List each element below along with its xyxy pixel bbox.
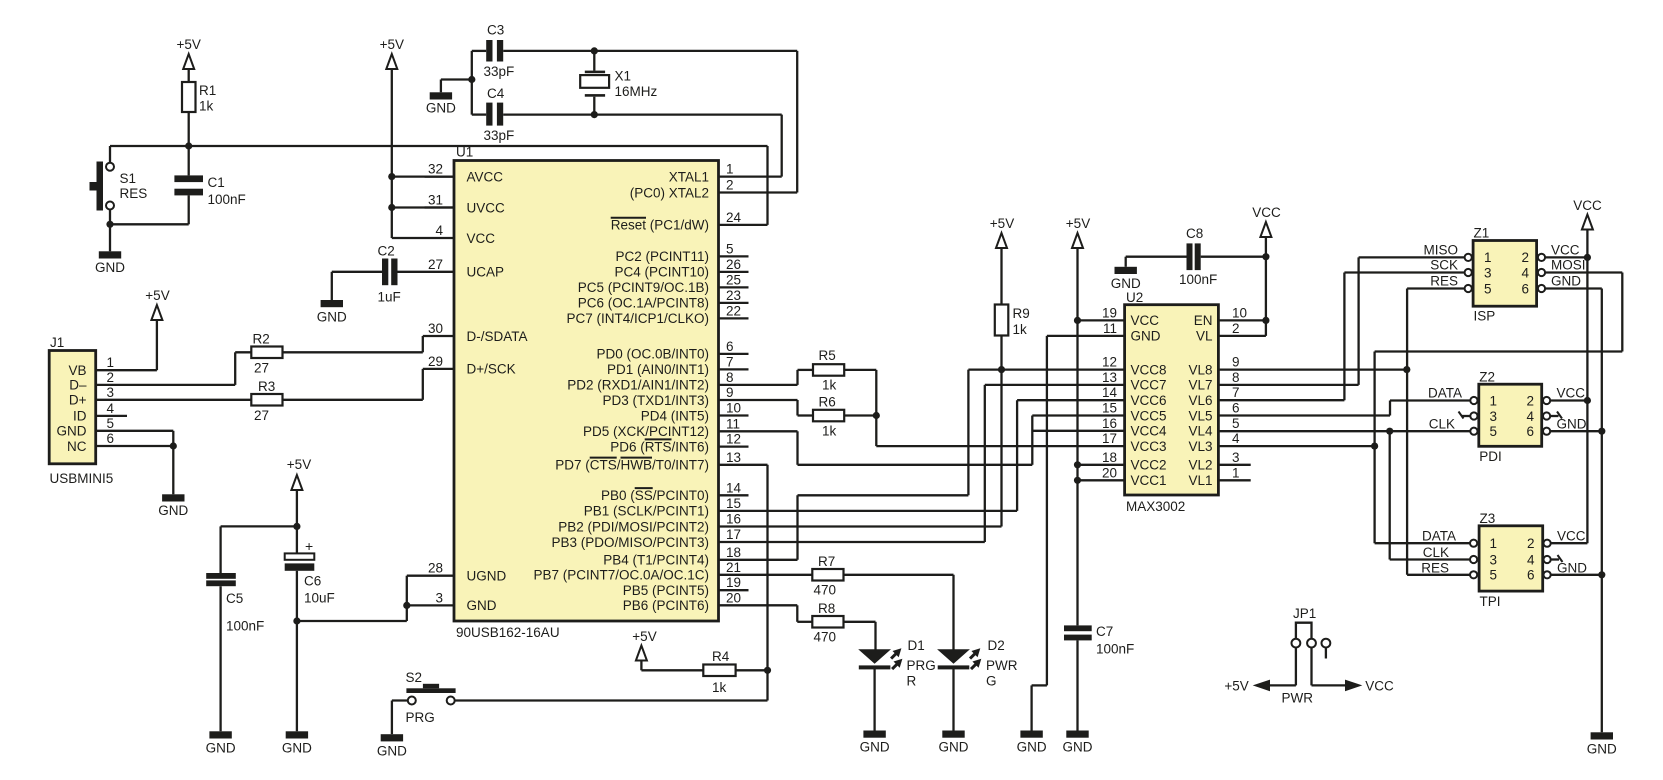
svg-text:VCC3: VCC3 bbox=[1131, 439, 1167, 454]
svg-text:GND: GND bbox=[426, 101, 456, 116]
svg-text:10uF: 10uF bbox=[304, 591, 335, 606]
wire PB7 to R7 bbox=[719, 574, 813, 576]
svg-text:1: 1 bbox=[726, 162, 734, 177]
svg-text:21: 21 bbox=[726, 560, 741, 575]
wire VL4 to Z2 CLK bbox=[1218, 430, 1470, 432]
svg-text:100nF: 100nF bbox=[226, 619, 264, 634]
svg-text:1k: 1k bbox=[199, 99, 214, 114]
node VCC/Z2 bbox=[1584, 397, 1591, 404]
svg-text:VCC: VCC bbox=[1131, 313, 1160, 328]
svg-text:MOSI: MOSI bbox=[1551, 258, 1586, 273]
node +5V/U2 pin19 bbox=[1074, 317, 1081, 324]
svg-text:VCC: VCC bbox=[467, 231, 496, 246]
svg-text:16MHz: 16MHz bbox=[615, 84, 658, 99]
svg-text:VCC1: VCC1 bbox=[1131, 473, 1167, 488]
svg-text:TPI: TPI bbox=[1480, 594, 1501, 609]
svg-text:9: 9 bbox=[1232, 355, 1240, 370]
svg-text:4: 4 bbox=[1232, 431, 1240, 446]
svg-text:AVCC: AVCC bbox=[467, 169, 504, 184]
svg-text:VCC6: VCC6 bbox=[1131, 393, 1167, 408]
svg-text:VCC: VCC bbox=[1573, 198, 1602, 213]
svg-text:RES: RES bbox=[1430, 274, 1458, 289]
wire R5/R6 node to U2 pin 17 bbox=[876, 416, 1124, 447]
power +5V (R9) bbox=[990, 216, 1014, 305]
svg-text:C5: C5 bbox=[226, 591, 243, 606]
svg-text:RES: RES bbox=[120, 186, 148, 201]
svg-text:PB3 (PDO/MISO/PCINT3): PB3 (PDO/MISO/PCINT3) bbox=[551, 535, 709, 550]
U1 inverted-signal overbars bbox=[590, 218, 672, 488]
svg-text:PB1 (SCLK/PCINT1): PB1 (SCLK/PCINT1) bbox=[584, 504, 709, 519]
svg-text:R3: R3 bbox=[258, 379, 275, 394]
svg-text:VL2: VL2 bbox=[1188, 458, 1212, 473]
crystal X1 16MHz bbox=[580, 51, 657, 115]
svg-text:100nF: 100nF bbox=[1179, 272, 1217, 287]
node X1 bottom junction bbox=[591, 111, 598, 118]
svg-text:UCAP: UCAP bbox=[467, 265, 505, 280]
svg-text:GND: GND bbox=[939, 740, 969, 755]
wire U2 pin11 GND net bbox=[1032, 336, 1125, 731]
svg-text:Z3: Z3 bbox=[1480, 511, 1496, 526]
svg-text:1: 1 bbox=[1484, 250, 1492, 265]
U1 left pin numbers and labels bbox=[428, 162, 528, 614]
node J1 gnd junction bbox=[170, 442, 177, 449]
wire S1-C1 bottom to GND bbox=[110, 224, 189, 251]
svg-text:14: 14 bbox=[1102, 385, 1118, 400]
ground (S1/C1) bbox=[95, 251, 125, 275]
op-amp U2 MAX3002 body bbox=[1125, 290, 1219, 514]
svg-text:PD0 (OC.0B/INT0): PD0 (OC.0B/INT0) bbox=[596, 347, 709, 362]
power +5V (R4) bbox=[632, 629, 703, 670]
svg-text:5: 5 bbox=[1232, 416, 1240, 431]
wire R7 to D2 bbox=[844, 575, 954, 650]
svg-text:17: 17 bbox=[1102, 431, 1117, 446]
svg-text:2: 2 bbox=[1527, 536, 1535, 551]
ground (C6) bbox=[282, 731, 312, 755]
svg-text:MISO: MISO bbox=[1423, 243, 1458, 258]
svg-text:C3: C3 bbox=[487, 23, 504, 38]
node U1 gnd junction bbox=[403, 602, 410, 609]
ground (Z connectors) bbox=[1587, 732, 1617, 756]
svg-text:11: 11 bbox=[1103, 321, 1117, 336]
wire JP1 to VCC arrow bbox=[1312, 679, 1394, 694]
capacitor C5 100nF bbox=[206, 573, 264, 731]
wire U1 right bare pin stubs bbox=[719, 256, 749, 590]
wire Z2 GND bbox=[1550, 430, 1602, 432]
connector Z2 PDI body bbox=[1479, 370, 1542, 465]
switch S2 PRG bbox=[406, 670, 456, 725]
svg-text:24: 24 bbox=[726, 210, 742, 225]
wire C6 gnd net to U1 GND bbox=[297, 605, 407, 621]
svg-text:GND: GND bbox=[1551, 274, 1581, 289]
svg-text:9: 9 bbox=[726, 385, 734, 400]
svg-text:USBMINI5: USBMINI5 bbox=[50, 471, 114, 486]
resistor R7 470 bbox=[812, 554, 843, 598]
svg-text:PC4 (PCINT10): PC4 (PCINT10) bbox=[614, 265, 709, 280]
svg-text:R1: R1 bbox=[199, 83, 216, 98]
svg-text:PRG: PRG bbox=[406, 710, 435, 725]
resistor R5 1k bbox=[813, 348, 844, 393]
svg-text:PWR: PWR bbox=[986, 658, 1018, 673]
svg-text:PB7 (PCINT7/OC.0A/OC.1C): PB7 (PCINT7/OC.0A/OC.1C) bbox=[533, 568, 709, 583]
svg-text:27: 27 bbox=[254, 408, 269, 423]
svg-text:R7: R7 bbox=[818, 554, 835, 569]
wire J1 pin3 D+ to R3 bbox=[96, 399, 252, 401]
ground (C7) bbox=[1063, 731, 1093, 755]
svg-text:19: 19 bbox=[1102, 305, 1117, 320]
svg-text:PC7 (INT4/ICP1/CLKO): PC7 (INT4/ICP1/CLKO) bbox=[566, 311, 709, 326]
svg-text:5: 5 bbox=[1490, 424, 1498, 439]
svg-text:C6: C6 bbox=[304, 574, 321, 589]
node VL4/TPI CLK junction bbox=[1386, 428, 1393, 435]
ground (U2 GND) bbox=[1017, 731, 1047, 755]
svg-text:13: 13 bbox=[726, 450, 741, 465]
svg-text:GND: GND bbox=[206, 741, 236, 756]
svg-text:1k: 1k bbox=[1013, 322, 1028, 337]
svg-text:19: 19 bbox=[726, 575, 741, 590]
svg-text:6: 6 bbox=[1522, 281, 1530, 296]
svg-text:GND: GND bbox=[377, 744, 407, 759]
diode D2 PWR LED bbox=[937, 638, 1018, 731]
svg-text:3: 3 bbox=[1490, 409, 1498, 424]
node S1 bottom junction bbox=[106, 221, 113, 228]
svg-text:4: 4 bbox=[435, 223, 443, 238]
wire Z3 pin4 nc stub bbox=[1551, 555, 1563, 562]
svg-text:R8: R8 bbox=[818, 601, 835, 616]
capacitor C1 100nF bbox=[174, 146, 245, 224]
svg-text:VL3: VL3 bbox=[1188, 439, 1212, 454]
resistor R6 1k bbox=[813, 395, 844, 439]
svg-text:VB: VB bbox=[68, 363, 86, 378]
wire R6 to node bbox=[844, 414, 876, 416]
wire VL7 to Z1 MISO bbox=[1218, 257, 1464, 385]
wire gnd tap arm bbox=[441, 80, 472, 93]
svg-text:MAX3002: MAX3002 bbox=[1126, 499, 1185, 514]
svg-text:PD4 (INT5): PD4 (INT5) bbox=[641, 408, 709, 423]
svg-text:(PC0) XTAL2: (PC0) XTAL2 bbox=[630, 185, 709, 200]
wire VL5 to Z2 DATA bbox=[1218, 401, 1470, 416]
op-amp U1 90USB162-16AU body bbox=[454, 145, 719, 641]
U2 pin numbers and labels bbox=[1102, 305, 1247, 488]
svg-text:+5V: +5V bbox=[287, 457, 311, 472]
wire PB4 to U2 pin 12 net bbox=[719, 370, 1125, 560]
svg-text:8: 8 bbox=[1232, 370, 1240, 385]
svg-text:2: 2 bbox=[1232, 321, 1240, 336]
svg-text:PD7 (CTS/HWB/T0/INT7): PD7 (CTS/HWB/T0/INT7) bbox=[555, 458, 709, 473]
svg-text:470: 470 bbox=[814, 630, 837, 645]
svg-text:J1: J1 bbox=[50, 335, 64, 350]
svg-text:UGND: UGND bbox=[467, 569, 507, 584]
wire Z3 GND bbox=[1551, 574, 1602, 576]
Z1 signal labels bbox=[1423, 243, 1585, 289]
wire PB1 to U2 pin 14 bbox=[719, 400, 1125, 511]
connector Z1 pins bbox=[1465, 250, 1546, 296]
power +5V (C5/C6 rail) bbox=[287, 457, 311, 526]
svg-text:U1: U1 bbox=[456, 145, 473, 160]
svg-text:PD5 (XCK/PCINT12): PD5 (XCK/PCINT12) bbox=[583, 424, 709, 439]
svg-text:+5V: +5V bbox=[176, 37, 200, 52]
svg-text:R9: R9 bbox=[1013, 306, 1030, 321]
svg-text:GND: GND bbox=[95, 260, 125, 275]
wire VL2 stub bbox=[1218, 464, 1250, 466]
svg-text:15: 15 bbox=[726, 496, 741, 511]
wire R8 to D1 bbox=[844, 622, 876, 650]
svg-text:VCC: VCC bbox=[1557, 386, 1586, 401]
wire U1 pin3 GND bbox=[407, 604, 454, 606]
svg-text:GND: GND bbox=[860, 740, 890, 755]
svg-text:1uF: 1uF bbox=[378, 290, 401, 305]
wire U1 pin28 UGND bbox=[407, 576, 454, 606]
svg-text:3: 3 bbox=[1490, 552, 1498, 567]
wire XTAL1 net (C4 row to pin 1) bbox=[594, 115, 781, 177]
svg-text:XTAL1: XTAL1 bbox=[669, 169, 709, 184]
svg-text:12: 12 bbox=[726, 432, 741, 447]
connector J1 USBMINI5 body bbox=[49, 335, 113, 486]
node RESET junction at R1 bbox=[185, 142, 192, 149]
svg-text:RES: RES bbox=[1421, 560, 1449, 575]
wire VL8 to RES column bbox=[1218, 368, 1406, 370]
svg-text:DATA: DATA bbox=[1422, 529, 1456, 544]
svg-text:90USB162-16AU: 90USB162-16AU bbox=[456, 625, 560, 640]
svg-text:PRG: PRG bbox=[907, 658, 936, 673]
power VCC (Z connectors) bbox=[1573, 198, 1602, 543]
capacitor C3 33pF bbox=[472, 23, 595, 80]
svg-text:ID: ID bbox=[73, 409, 87, 424]
svg-text:7: 7 bbox=[1232, 385, 1240, 400]
wire Z2 pin4 nc stub bbox=[1550, 412, 1562, 419]
svg-text:U2: U2 bbox=[1126, 290, 1143, 305]
svg-text:GND: GND bbox=[1017, 740, 1047, 755]
svg-text:+5V: +5V bbox=[632, 629, 656, 644]
wire RES column (Z1 RES to Z3 RES) bbox=[1407, 289, 1470, 575]
wire J1 pin2 D- to R2 bbox=[96, 352, 252, 385]
power +5V (R1 pull-up supply) bbox=[176, 37, 200, 82]
wire U1 pin 32 stub bbox=[425, 175, 454, 177]
ground (D2) bbox=[939, 731, 969, 755]
capacitor C8 100nF bbox=[1126, 226, 1266, 287]
svg-text:R4: R4 bbox=[712, 649, 730, 664]
svg-text:PD2 (RXD1/AIN1/INT2): PD2 (RXD1/AIN1/INT2) bbox=[567, 378, 709, 393]
wire VL6 to Z1 SCK bbox=[1218, 273, 1464, 401]
svg-text:25: 25 bbox=[726, 272, 741, 287]
diode D1 PRG LED bbox=[858, 638, 936, 731]
power +5V (U2 rail) bbox=[1066, 216, 1125, 625]
power VCC (U2 EN/VL) bbox=[1218, 205, 1281, 336]
svg-text:VCC2: VCC2 bbox=[1131, 458, 1167, 473]
wire PD5 to U2 pin 16 bbox=[719, 416, 1125, 465]
svg-text:GND: GND bbox=[1131, 329, 1161, 344]
svg-text:D+: D+ bbox=[69, 393, 87, 408]
svg-text:3: 3 bbox=[1484, 265, 1492, 280]
svg-text:5: 5 bbox=[107, 416, 115, 431]
ground (D1) bbox=[860, 731, 890, 755]
node VCC/Z1 bbox=[1584, 254, 1591, 261]
wire C3/C4 left join bbox=[471, 51, 473, 115]
wire J1 pin1 VB to +5V bbox=[96, 320, 157, 370]
svg-text:R2: R2 bbox=[253, 332, 270, 347]
svg-text:6: 6 bbox=[1527, 424, 1535, 439]
svg-text:JP1: JP1 bbox=[1293, 606, 1316, 621]
svg-text:15: 15 bbox=[1102, 401, 1117, 416]
svg-text:D2: D2 bbox=[988, 638, 1005, 653]
svg-text:VL4: VL4 bbox=[1188, 424, 1213, 439]
svg-text:G: G bbox=[986, 674, 997, 689]
wire PD2 to R5 bbox=[719, 370, 814, 385]
svg-text:33pF: 33pF bbox=[484, 64, 515, 79]
svg-text:PC6 (OC.1A/PCINT8): PC6 (OC.1A/PCINT8) bbox=[578, 296, 709, 311]
svg-text:PC2 (PCINT11): PC2 (PCINT11) bbox=[615, 249, 709, 264]
node VCC/EN junction bbox=[1262, 317, 1269, 324]
svg-text:UVCC: UVCC bbox=[467, 200, 506, 215]
svg-text:D1: D1 bbox=[908, 638, 925, 653]
svg-text:+5V: +5V bbox=[1066, 216, 1090, 231]
svg-text:VCC4: VCC4 bbox=[1131, 424, 1168, 439]
svg-text:6: 6 bbox=[107, 431, 115, 446]
resistor R9 1k bbox=[995, 305, 1030, 338]
svg-text:VCC: VCC bbox=[1557, 529, 1586, 544]
power +5V (J1 VB) bbox=[145, 288, 169, 320]
capacitor C2 1uF bbox=[332, 244, 454, 305]
wire XTAL2 net (C3 row to pin 2) bbox=[594, 51, 797, 193]
node X1 top junction bbox=[591, 47, 598, 54]
connector Z3 pins bbox=[1470, 536, 1551, 583]
svg-text:GND: GND bbox=[158, 503, 188, 518]
Z3 signal labels bbox=[1421, 529, 1587, 576]
wire TPI CLK column bbox=[1390, 431, 1470, 559]
wire J1 pin5 GND bbox=[96, 431, 174, 446]
svg-text:Z1: Z1 bbox=[1474, 226, 1490, 241]
svg-text:1k: 1k bbox=[822, 378, 837, 393]
node +5V/AVCC junction bbox=[388, 173, 395, 180]
svg-text:1k: 1k bbox=[712, 680, 727, 695]
svg-text:CLK: CLK bbox=[1429, 417, 1455, 432]
svg-text:PB4 (T1/PCINT4): PB4 (T1/PCINT4) bbox=[603, 553, 709, 568]
svg-text:4: 4 bbox=[1522, 265, 1530, 280]
wire Z2 VCC bbox=[1550, 399, 1587, 401]
svg-text:VL6: VL6 bbox=[1188, 393, 1212, 408]
node +5V/U2 pin18 bbox=[1074, 461, 1081, 468]
capacitor C6 10uF (polarized) bbox=[285, 526, 335, 621]
svg-text:20: 20 bbox=[1102, 465, 1117, 480]
svg-text:NC: NC bbox=[67, 439, 87, 454]
svg-text:2: 2 bbox=[107, 370, 115, 385]
svg-text:+: + bbox=[305, 538, 313, 554]
svg-text:1: 1 bbox=[1490, 536, 1498, 551]
wire RESET net (R1/S1/C1 to pin 24) bbox=[110, 146, 768, 225]
svg-text:S1: S1 bbox=[120, 171, 137, 186]
svg-text:VL: VL bbox=[1196, 329, 1213, 344]
svg-text:C7: C7 bbox=[1096, 624, 1113, 639]
wire Z1 GND bbox=[1545, 289, 1602, 733]
svg-text:ISP: ISP bbox=[1474, 309, 1496, 324]
node GND/Z3 bbox=[1598, 571, 1605, 578]
wire PD3 to R6 bbox=[719, 400, 814, 416]
svg-text:C1: C1 bbox=[208, 175, 225, 190]
svg-text:1k: 1k bbox=[822, 424, 837, 439]
svg-text:5: 5 bbox=[1484, 281, 1492, 296]
node +5V/UVCC junction bbox=[388, 204, 395, 211]
resistor R8 470 bbox=[812, 601, 843, 645]
wire U1 pin 31 stub bbox=[425, 206, 454, 208]
node VCC/C8 junction bbox=[1262, 253, 1269, 260]
svg-text:14: 14 bbox=[726, 480, 742, 495]
svg-text:PD6 (RTS/INT6): PD6 (RTS/INT6) bbox=[610, 439, 709, 454]
svg-text:R5: R5 bbox=[819, 348, 836, 363]
ground (C5) bbox=[206, 731, 236, 755]
svg-text:C4: C4 bbox=[487, 86, 505, 101]
svg-text:16: 16 bbox=[726, 512, 741, 527]
svg-text:PC5 (PCINT9/OC.1B): PC5 (PCINT9/OC.1B) bbox=[578, 280, 709, 295]
svg-text:GND: GND bbox=[1587, 742, 1617, 757]
svg-text:GND: GND bbox=[57, 424, 87, 439]
svg-text:C8: C8 bbox=[1186, 226, 1203, 241]
svg-text:29: 29 bbox=[428, 354, 443, 369]
svg-text:16: 16 bbox=[1102, 416, 1117, 431]
svg-text:6: 6 bbox=[1232, 401, 1240, 416]
node +5V/U2 pin20 bbox=[1074, 477, 1081, 484]
svg-text:Z2: Z2 bbox=[1479, 370, 1495, 385]
connector Z2 pins bbox=[1470, 393, 1550, 439]
svg-text:12: 12 bbox=[1102, 355, 1117, 370]
svg-text:Reset (PC1/dW): Reset (PC1/dW) bbox=[611, 218, 709, 233]
node R5/R6 junction bbox=[873, 412, 880, 419]
wire +5V to C5 bbox=[221, 526, 297, 573]
svg-text:D–: D– bbox=[69, 378, 87, 393]
svg-text:C2: C2 bbox=[378, 244, 395, 259]
node GND/Z2 bbox=[1598, 428, 1605, 435]
wire VL1 stub bbox=[1218, 479, 1250, 481]
wire R2 to U1 pin 30 bbox=[283, 336, 455, 352]
svg-text:PDI: PDI bbox=[1479, 449, 1502, 464]
svg-text:6: 6 bbox=[726, 339, 734, 354]
svg-text:GND: GND bbox=[1063, 740, 1093, 755]
svg-text:3: 3 bbox=[107, 385, 115, 400]
connector J1 pin labels bbox=[57, 355, 115, 454]
svg-text:VL5: VL5 bbox=[1188, 408, 1212, 423]
svg-text:PWR: PWR bbox=[1282, 691, 1314, 706]
ground (S2) bbox=[377, 734, 407, 758]
svg-text:2: 2 bbox=[726, 178, 734, 193]
svg-text:4: 4 bbox=[1527, 409, 1535, 424]
connector Z3 TPI body bbox=[1479, 511, 1543, 609]
jumper JP1 bbox=[1282, 606, 1331, 706]
svg-text:22: 22 bbox=[726, 303, 741, 318]
svg-text:30: 30 bbox=[428, 321, 443, 336]
wire PB3 to U2 pin 13 bbox=[719, 385, 1125, 542]
svg-text:EN: EN bbox=[1194, 313, 1213, 328]
svg-text:100nF: 100nF bbox=[1096, 642, 1134, 657]
wire PD7 node to S2 bbox=[455, 699, 768, 701]
capacitor C4 33pF bbox=[472, 86, 595, 143]
capacitor C7 100nF bbox=[1064, 624, 1134, 731]
svg-text:PB6 (PCINT6): PB6 (PCINT6) bbox=[623, 598, 709, 613]
svg-text:5: 5 bbox=[726, 241, 734, 256]
svg-text:GND: GND bbox=[317, 310, 347, 325]
wire J1 pin6 NC bbox=[96, 446, 174, 494]
U1 right pin numbers and labels bbox=[533, 162, 741, 613]
wire R3 to U1 pin 29 bbox=[283, 369, 455, 400]
svg-text:PD3 (TXD1/INT3): PD3 (TXD1/INT3) bbox=[602, 393, 709, 408]
node C6 gnd junction bbox=[293, 617, 300, 624]
svg-text:17: 17 bbox=[726, 527, 741, 542]
svg-text:3: 3 bbox=[435, 590, 443, 605]
svg-text:28: 28 bbox=[428, 561, 443, 576]
svg-text:3: 3 bbox=[1232, 450, 1240, 465]
wire Z1 VCC bbox=[1545, 256, 1587, 258]
wire PB2 to U2 pin 12 net (R9 column) bbox=[719, 370, 1002, 527]
wire S2 to ground bbox=[392, 701, 408, 735]
svg-text:27: 27 bbox=[254, 361, 269, 376]
svg-text:31: 31 bbox=[428, 193, 443, 208]
